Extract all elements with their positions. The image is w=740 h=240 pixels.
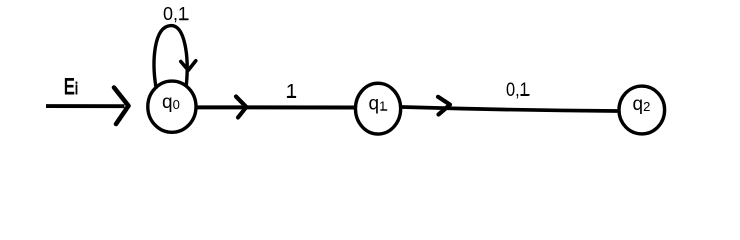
svg-text:0,1: 0,1 [506, 79, 529, 101]
state q0 [148, 81, 196, 132]
wire start arrow shaft [46, 104, 125, 108]
svg-text:1: 1 [286, 81, 297, 103]
arrowhead q1 to q2 [438, 97, 450, 115]
label q2 [633, 94, 651, 115]
svg-text:q0: q0 [162, 92, 180, 113]
arrowhead self-loop [181, 61, 196, 71]
svg-text:Ei: Ei [64, 74, 78, 99]
label q0 [162, 92, 180, 113]
wire transition q1 to q2 [402, 107, 617, 111]
label 1 (transition q0 to q1) [286, 81, 297, 103]
arrowhead q0 to q1 [236, 97, 246, 118]
wire transition q0 to q1 [197, 105, 354, 109]
svg-text:q1: q1 [369, 94, 387, 115]
label 0,1 (self-loop) [163, 4, 188, 24]
label Ei (input) [64, 74, 78, 99]
label q1 [369, 94, 387, 115]
svg-text:q2: q2 [633, 94, 651, 115]
state q1 [355, 83, 400, 134]
state q2 [619, 86, 665, 134]
svg-text:0,1: 0,1 [163, 4, 188, 24]
arrowhead start arrow [114, 88, 129, 125]
label 0,1 (transition q1 to q2) [506, 79, 529, 101]
wire self-loop on q0 [154, 26, 187, 88]
